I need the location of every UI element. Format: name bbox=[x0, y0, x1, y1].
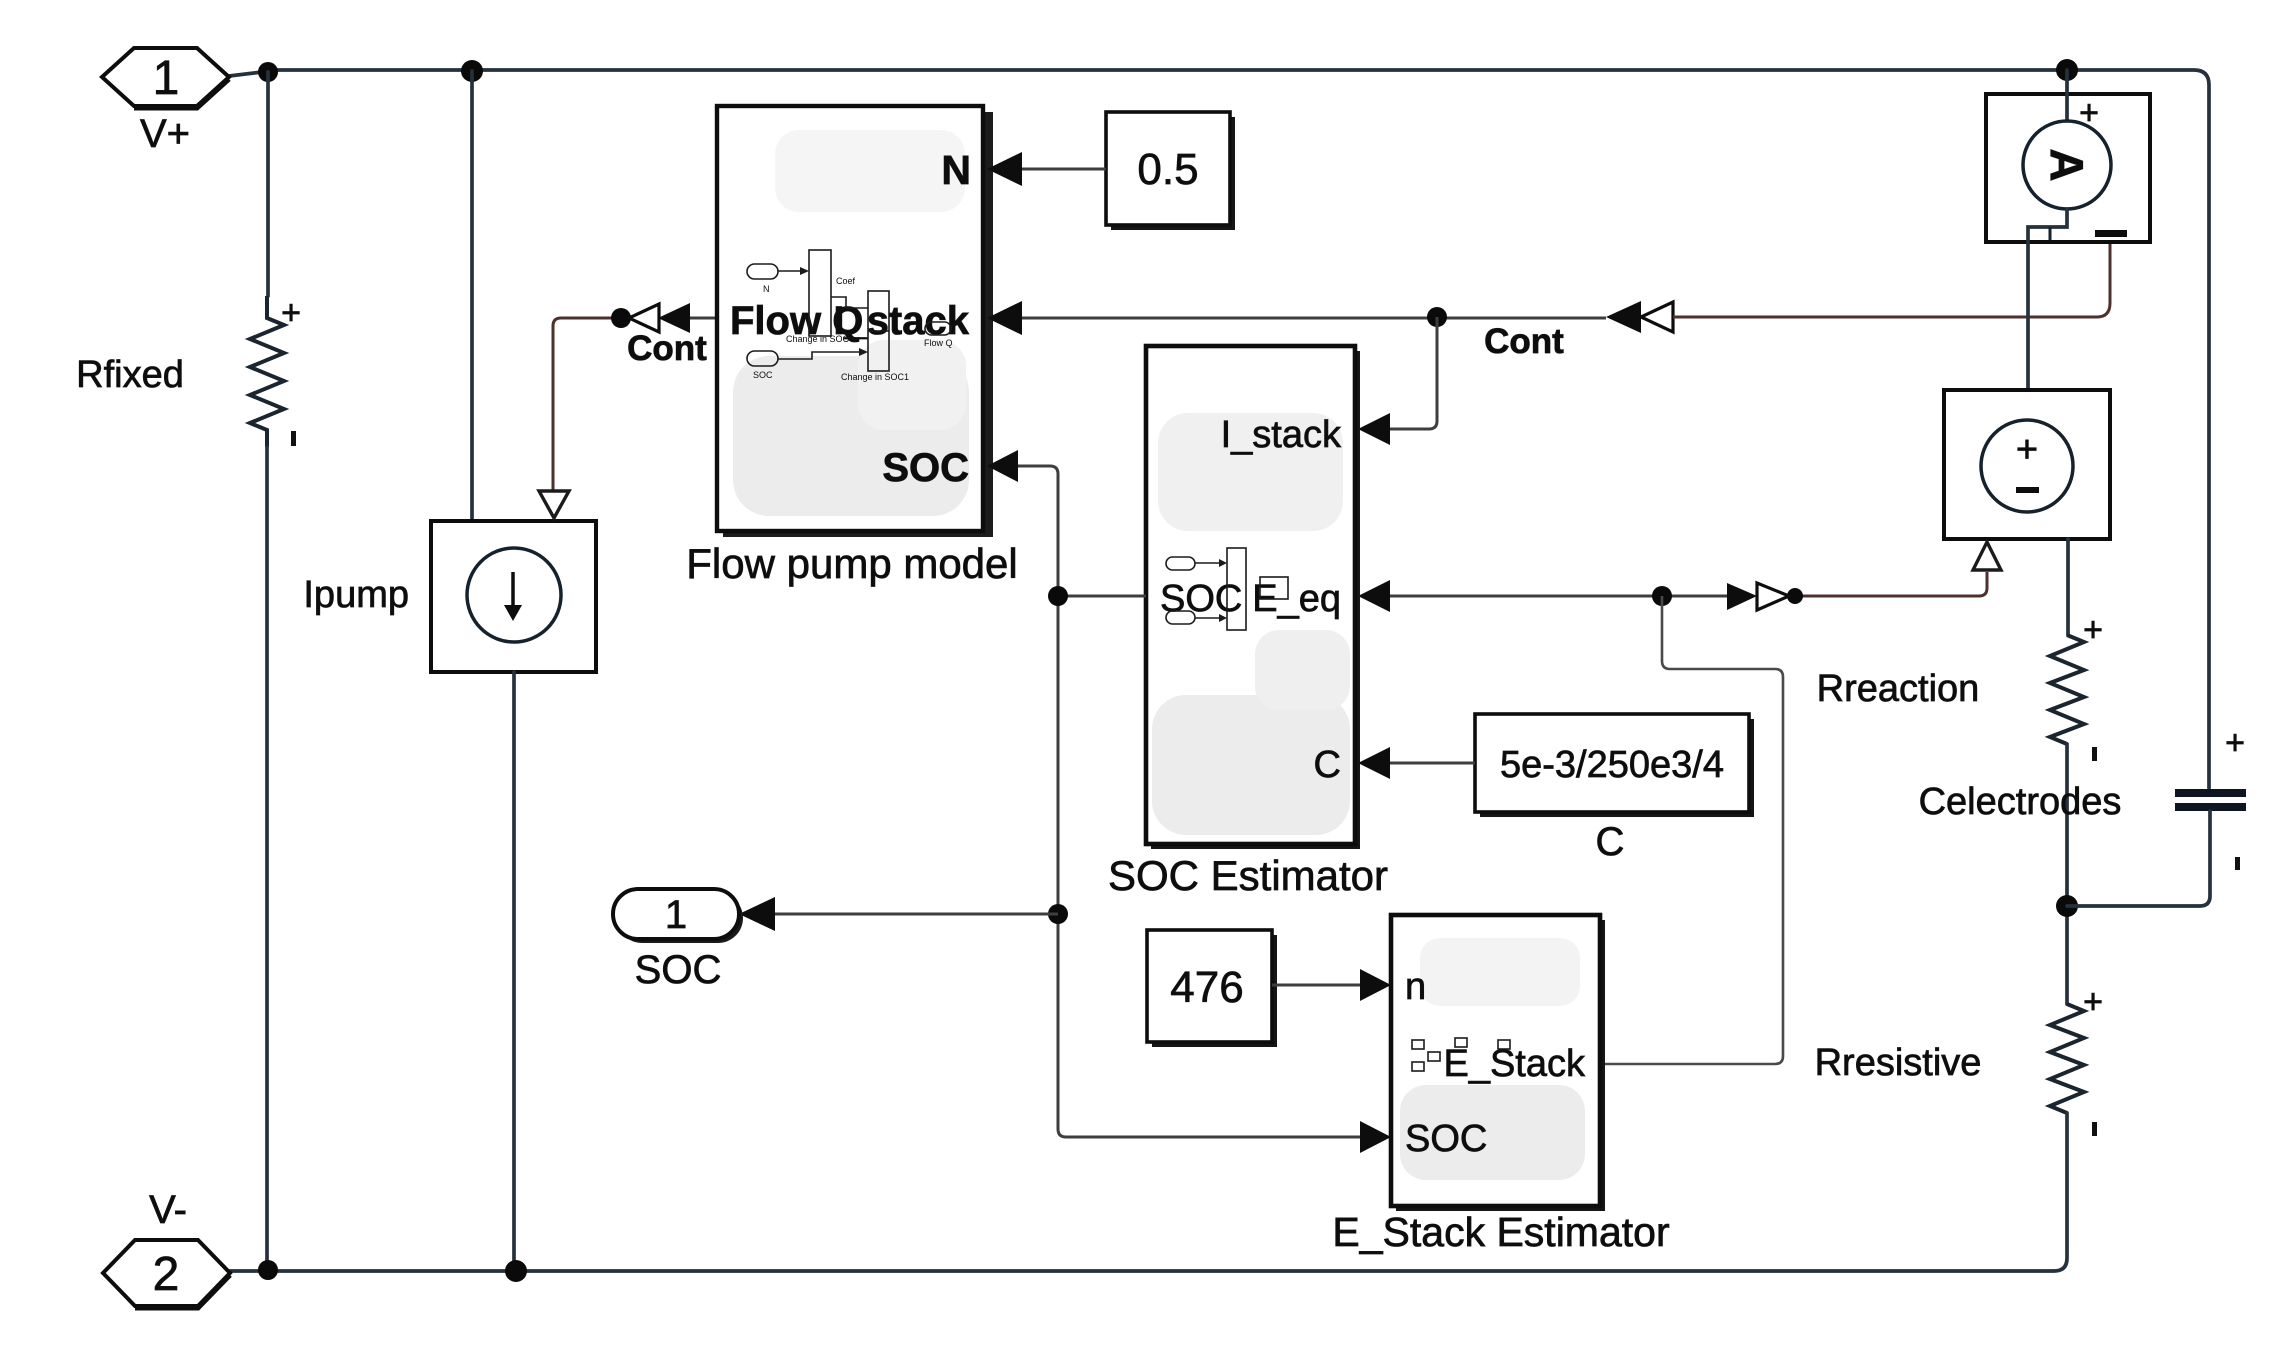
wire SOC to outport bbox=[775, 913, 1058, 916]
wire top rail V+ bbox=[229, 70, 2209, 788]
capacitor Celectrodes bbox=[1919, 724, 2246, 906]
svg-text:Change in SOC1: Change in SOC1 bbox=[841, 372, 909, 382]
arrowhead hollow at Flow Q out bbox=[629, 304, 659, 332]
resistor Rresistive bbox=[1815, 983, 2103, 1136]
junction E_eq branch bbox=[1652, 586, 1672, 606]
junction top Ipump branch bbox=[461, 60, 483, 82]
svg-text:2: 2 bbox=[153, 1248, 180, 1301]
junction Flow Q out bbox=[611, 308, 631, 328]
arrowhead SOC input E_Stack Estimator bbox=[1360, 1121, 1391, 1153]
wire SOC net bbox=[1018, 466, 1360, 1137]
svg-text:Cont: Cont bbox=[627, 329, 707, 368]
svg-text:Cont: Cont bbox=[1484, 322, 1564, 361]
svg-text:+: + bbox=[2083, 611, 2103, 649]
port 1 (V+) hexagon bbox=[102, 48, 229, 108]
svg-text:1: 1 bbox=[665, 893, 687, 937]
junction bottom Ipump bbox=[505, 1260, 527, 1282]
arrowhead SOC outport bbox=[739, 897, 775, 931]
wire VS control (maroon) bbox=[1795, 572, 1987, 596]
arrowhead hollow Cont mid bbox=[1641, 302, 1673, 332]
wire Cont line (gray part) bbox=[1022, 317, 1606, 320]
svg-text:Celectrodes: Celectrodes bbox=[1919, 781, 2122, 823]
arrowhead filled at Flow Q out bbox=[658, 303, 690, 333]
arrowhead E_eq input SOC Estimator bbox=[1358, 580, 1390, 612]
svg-text:Rfixed: Rfixed bbox=[76, 354, 184, 396]
svg-text:SOC Estimator: SOC Estimator bbox=[1108, 852, 1388, 899]
resistor Rfixed bbox=[76, 294, 301, 447]
wire Cont maroon from ammeter bbox=[1673, 236, 2110, 317]
svg-text:SOC: SOC bbox=[635, 948, 722, 992]
svg-text:Coef: Coef bbox=[836, 276, 856, 286]
subsystem E_Stack Estimator bbox=[1391, 915, 1605, 1211]
svg-text:SOC: SOC bbox=[882, 446, 969, 490]
constant block 476 bbox=[1147, 930, 1277, 1047]
ammeter A bbox=[1986, 70, 2150, 390]
Ipump control input triangle bbox=[539, 491, 569, 518]
svg-text:Flow Q: Flow Q bbox=[924, 338, 953, 348]
svg-text:SOC: SOC bbox=[1160, 578, 1242, 620]
arrowhead filled Cont mid bbox=[1606, 301, 1641, 333]
constant block 0.5 bbox=[1106, 112, 1235, 230]
arrowhead n input bbox=[1360, 969, 1391, 1001]
subsystem SOC Estimator bbox=[1146, 346, 1360, 849]
svg-text:C: C bbox=[1314, 744, 1341, 786]
controlled voltage source bbox=[1944, 390, 2110, 570]
junction E_eq maroon bbox=[1787, 588, 1803, 604]
svg-text:N: N bbox=[941, 147, 971, 193]
junction bottom-left bbox=[258, 1260, 278, 1280]
svg-text:Rreaction: Rreaction bbox=[1817, 668, 1980, 710]
svg-text:Rresistive: Rresistive bbox=[1815, 1042, 1982, 1084]
wire 476 to n bbox=[1272, 984, 1360, 987]
svg-text:+: + bbox=[2079, 94, 2099, 132]
Flow pump model inner thumbnail bbox=[747, 250, 953, 382]
wire Rreaction to junction bbox=[2065, 744, 2069, 1004]
junction Cont branch bbox=[1427, 307, 1447, 327]
svg-text:A: A bbox=[2041, 148, 2093, 181]
wire E_eq line gray bbox=[1390, 595, 1727, 598]
subsystem Flow pump model bbox=[717, 106, 993, 537]
wire Flow Q out stub bbox=[690, 317, 717, 320]
wire Rfixed bottom bbox=[265, 447, 269, 1270]
wire C to SOC Estimator bbox=[1390, 762, 1475, 765]
svg-text:N: N bbox=[763, 284, 770, 294]
svg-text:+: + bbox=[2083, 983, 2103, 1021]
svg-text:I_stack: I_stack bbox=[833, 299, 969, 343]
svg-text:n: n bbox=[1405, 966, 1426, 1008]
svg-text:Change in SOC: Change in SOC bbox=[786, 334, 850, 344]
junction top-left bbox=[258, 62, 278, 82]
svg-text:+: + bbox=[281, 294, 301, 332]
outport 1 SOC bbox=[613, 889, 743, 992]
wire Ipump bottom bbox=[512, 672, 516, 1271]
current source Ipump bbox=[303, 521, 596, 672]
wire Cont to I_stack of SOC Estimator bbox=[1390, 317, 1437, 429]
wire SOC to SOC Estimator left bbox=[1058, 595, 1146, 598]
svg-text:I_stack: I_stack bbox=[1221, 414, 1342, 456]
junction cap/resistors bbox=[2056, 895, 2078, 917]
svg-text:E_Stack Estimator: E_Stack Estimator bbox=[1332, 1209, 1669, 1255]
svg-text:SOC: SOC bbox=[753, 370, 773, 380]
constant block C value bbox=[1475, 714, 1754, 864]
svg-text:+: + bbox=[2225, 724, 2245, 762]
svg-text:5e-3/250e3/4: 5e-3/250e3/4 bbox=[1500, 744, 1724, 786]
svg-text:E_Stack: E_Stack bbox=[1443, 1043, 1586, 1085]
wire 0.5 to N bbox=[1022, 168, 1106, 171]
arrowhead N input bbox=[987, 152, 1022, 186]
svg-text:Flow pump model: Flow pump model bbox=[686, 540, 1017, 587]
svg-text:SOC: SOC bbox=[1405, 1118, 1487, 1160]
junction top ammeter branch bbox=[2056, 59, 2078, 81]
svg-text:1: 1 bbox=[153, 52, 180, 105]
arrowhead SOC input Flow pump bbox=[987, 450, 1018, 482]
svg-text:C: C bbox=[1596, 820, 1625, 864]
svg-text:V-: V- bbox=[149, 1188, 187, 1232]
arrowhead filled E_eq mid bbox=[1727, 583, 1757, 610]
arrowhead I_stack input Flow pump bbox=[987, 301, 1022, 335]
junction SOC outport branch bbox=[1048, 904, 1068, 924]
wire Rfixed top bbox=[266, 72, 270, 296]
svg-text:V+: V+ bbox=[140, 112, 190, 156]
svg-text:476: 476 bbox=[1170, 963, 1243, 1012]
arrowhead hollow E_eq mid bbox=[1757, 583, 1789, 610]
wire Ipump top bbox=[470, 71, 474, 523]
port 2 (V-) hexagon bbox=[103, 1240, 230, 1308]
svg-text:Ipump: Ipump bbox=[303, 574, 409, 616]
resistor Rreaction bbox=[1817, 539, 2103, 761]
arrowhead C input bbox=[1358, 747, 1390, 779]
wire control Flow Q to Ipump (maroon) bbox=[553, 318, 622, 490]
wire bottom rail bbox=[230, 1113, 2067, 1271]
SOC Estimator inner thumbnail bbox=[1166, 548, 1288, 630]
junction SOC mid bbox=[1048, 586, 1068, 606]
svg-text:+: + bbox=[2016, 429, 2038, 471]
arrowhead I_stack input SOC Estimator bbox=[1358, 413, 1390, 445]
wire E_Stack feedback bbox=[1600, 596, 1783, 1064]
svg-text:0.5: 0.5 bbox=[1137, 145, 1198, 194]
